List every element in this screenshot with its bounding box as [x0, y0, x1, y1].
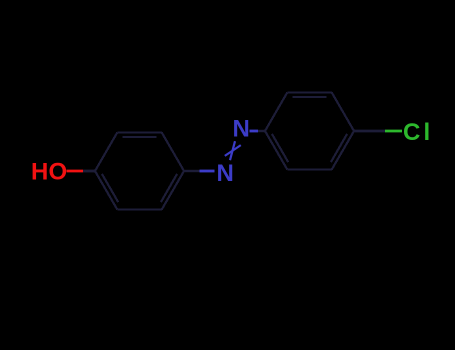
svg-text:O: O	[49, 159, 68, 186]
wire ring1 edge L-TL	[95, 133, 117, 172]
ring2 inner double-bond line (top)	[293, 96, 327, 98]
benzene ring 2 (chlorophenyl ring) outline	[265, 93, 354, 170]
wire ring1 edge TL-TR	[117, 131, 162, 133]
svg-text:H: H	[31, 159, 48, 186]
bond C4'-Cl chlorine half	[385, 130, 402, 133]
svg-text:l: l	[424, 119, 431, 146]
ring2 inner double-bond line (left-bottom)	[272, 134, 288, 162]
atom label O-H (phenol HO)	[31, 159, 67, 186]
bond O-C1 carbon half	[83, 170, 95, 173]
ring1 inner double-bond line (left-bottom)	[102, 174, 118, 202]
bond N2-C1' carbon half	[258, 130, 265, 132]
ring1 inner double-bond line (right-bottom)	[161, 174, 177, 202]
wire ring1 edge TR-R	[162, 133, 184, 172]
svg-text:C: C	[403, 119, 420, 146]
bond C4'-Cl carbon half	[354, 130, 385, 133]
wire ring2 edge R-BR	[332, 131, 354, 170]
wire ring1 edge R-BR	[162, 171, 184, 210]
svg-text:N: N	[233, 116, 250, 143]
azo N=N crossed double bond	[225, 141, 241, 160]
ring2 inner double-bond line (right-bottom)	[331, 134, 347, 162]
wire ring2 edge TR-R	[332, 93, 354, 132]
wire ring2 edge BR-BL	[287, 168, 332, 170]
ring1 inner double-bond line (top)	[123, 136, 157, 138]
wire ring2 edge L-TL	[265, 93, 287, 132]
bond N2-C1' nitrogen half	[250, 130, 259, 133]
wire ring2 edge BL-L	[265, 131, 287, 170]
wire ring2 edge TL-TR	[287, 91, 332, 93]
bond O-C1 red half	[67, 170, 84, 173]
bond C4-N1 carbon half	[184, 170, 200, 172]
benzene ring 1 (phenol ring) outline	[95, 133, 184, 210]
svg-text:N: N	[217, 160, 234, 187]
bond C4-N1 nitrogen half	[200, 170, 215, 173]
wire ring1 edge BL-L	[95, 171, 117, 210]
wire ring1 edge BR-BL	[117, 208, 162, 210]
